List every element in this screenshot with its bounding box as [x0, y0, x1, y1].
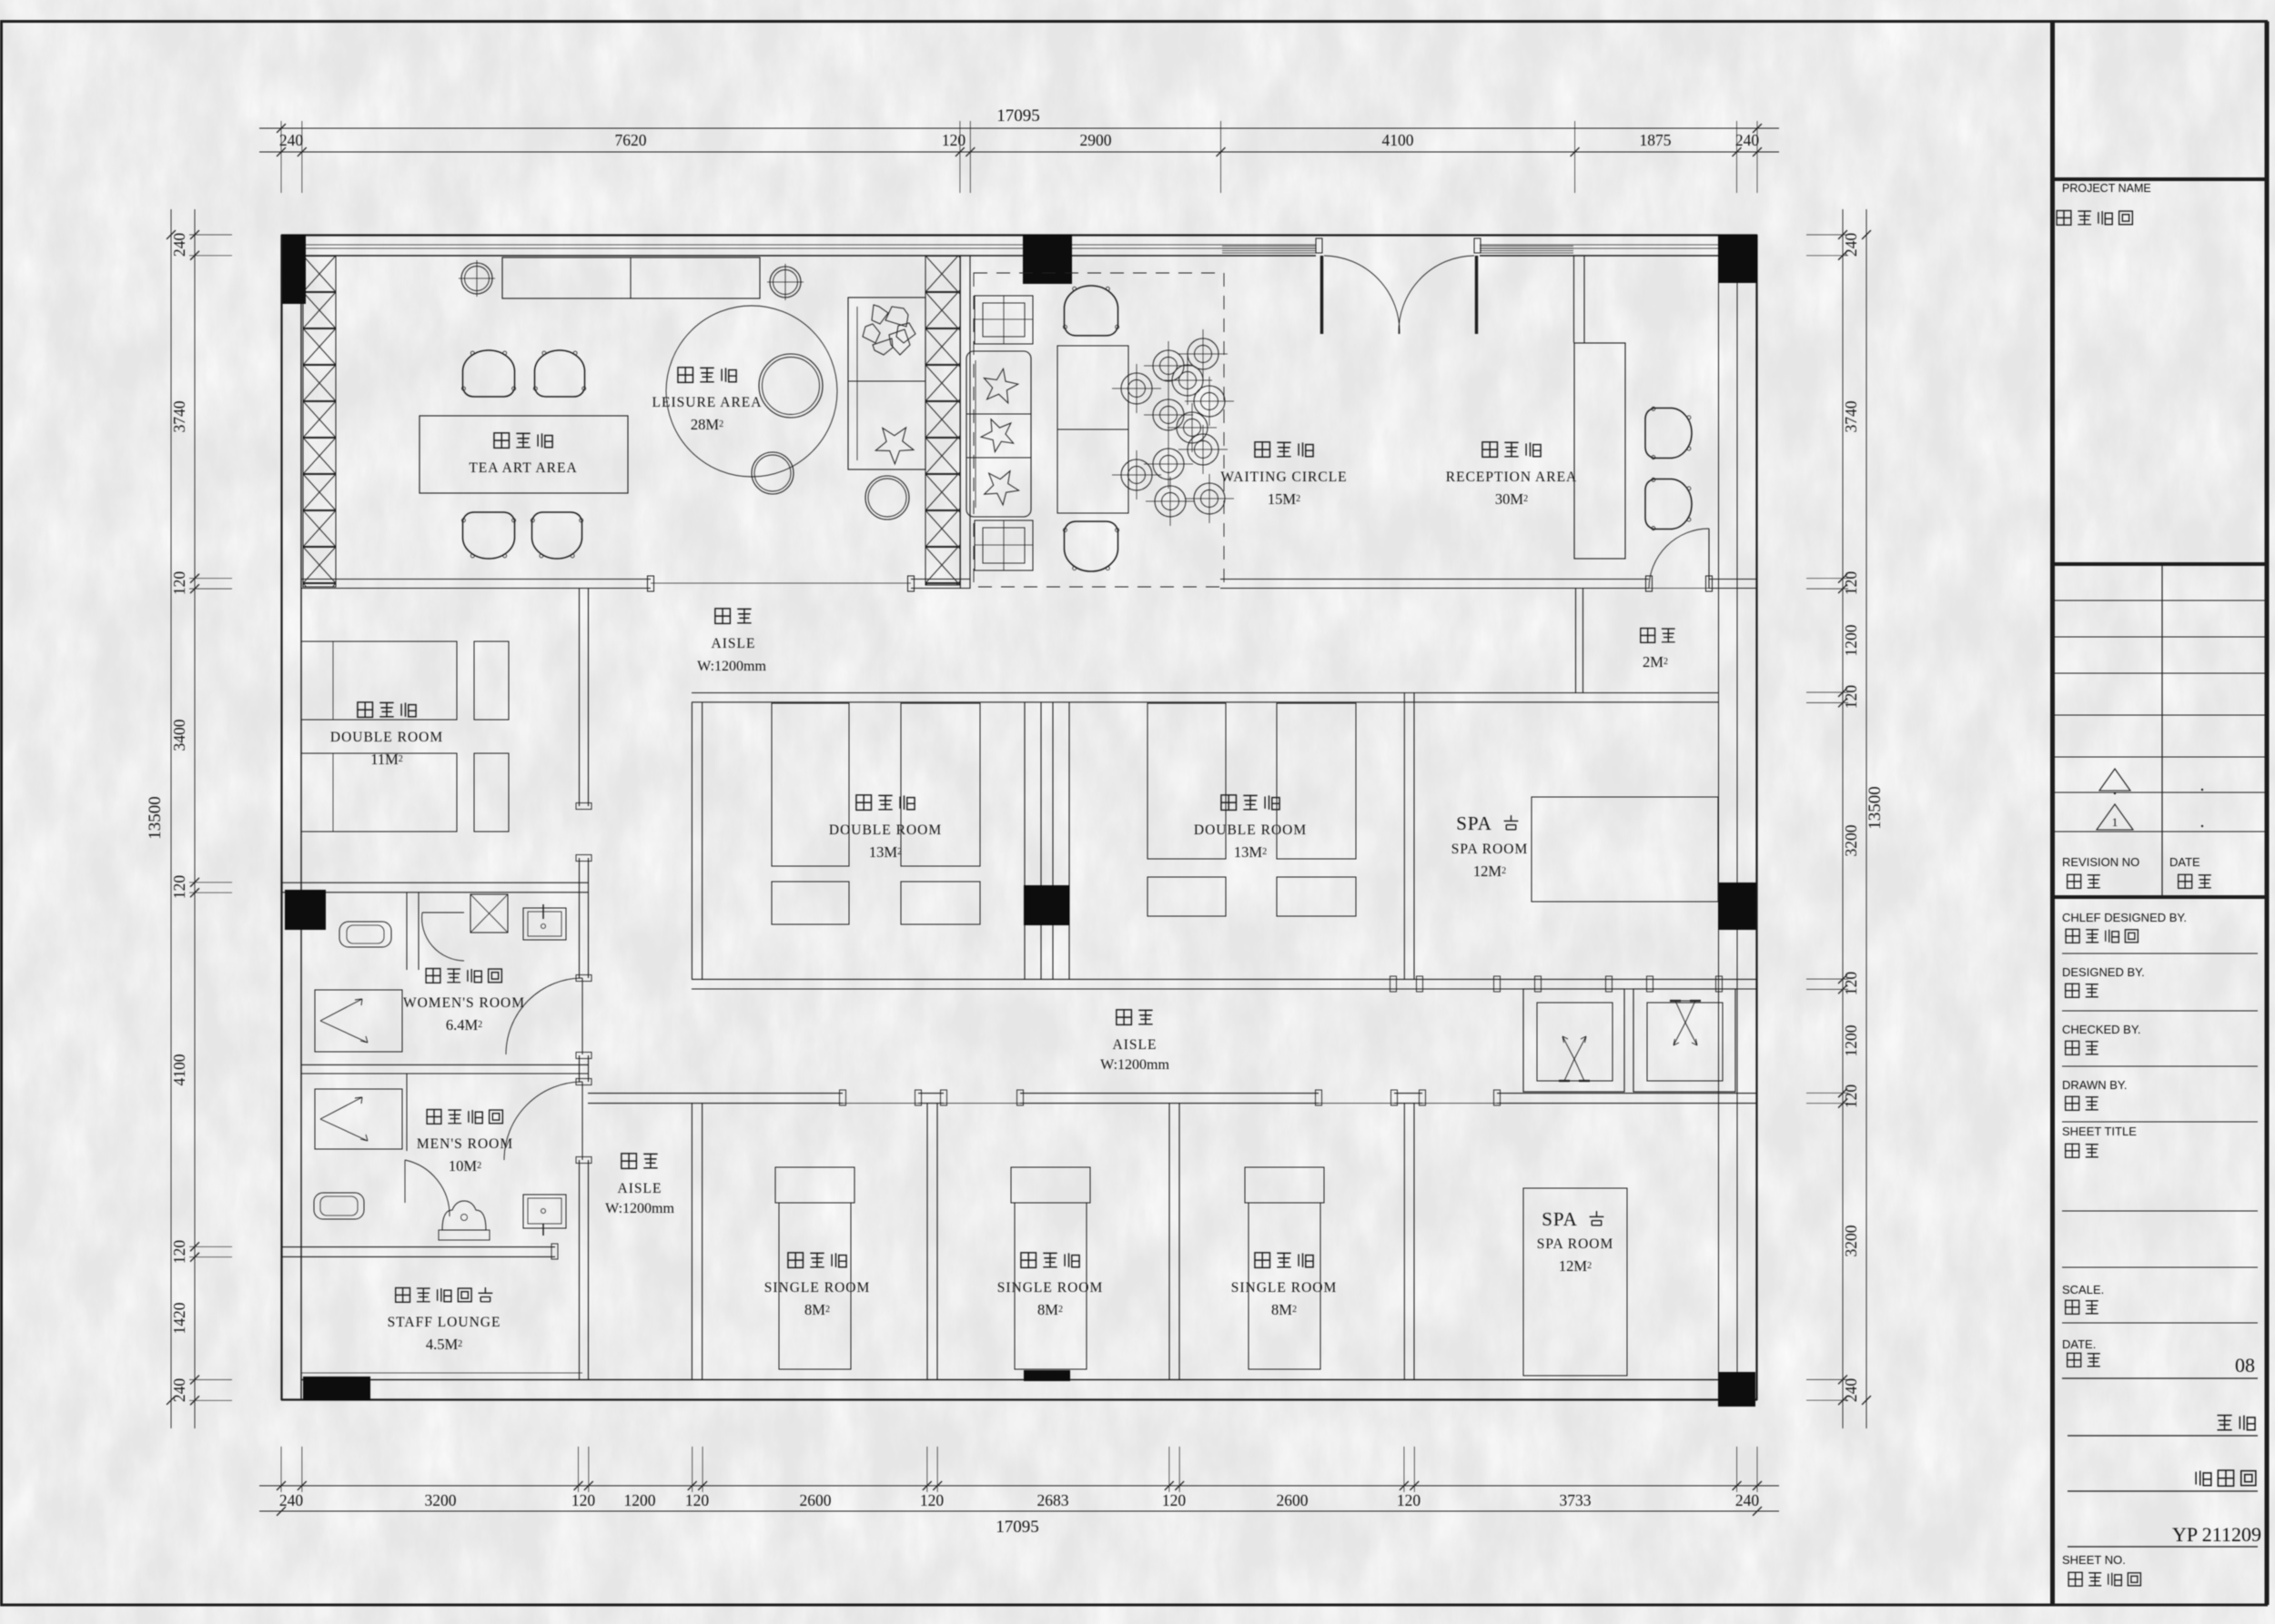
svg-text:240: 240	[170, 233, 188, 257]
title row line	[2062, 1210, 2258, 1212]
WC partition stubs	[406, 893, 408, 970]
svg-text:CHLEF DESIGNED BY.: CHLEF DESIGNED BY.	[2062, 911, 2187, 924]
tea chair SE	[531, 512, 582, 559]
svg-text:120: 120	[685, 1491, 710, 1509]
title hanzi 日期	[2179, 874, 2192, 888]
svg-text:12M2: 12M2	[1559, 1257, 1592, 1275]
bench C1	[1148, 877, 1226, 916]
label aisle 3 过道	[1117, 1010, 1132, 1025]
page frame border	[0, 20, 2268, 23]
leisure round rug	[666, 306, 837, 477]
interior wall H4 middle block south y1076-1087	[692, 978, 1757, 980]
svg-text:120: 120	[1842, 972, 1860, 996]
dimension chain top: segments	[259, 151, 1779, 153]
dimension chain bottom: segments	[259, 1485, 1779, 1487]
svg-text:DATE: DATE	[2169, 855, 2200, 869]
svg-text:AISLE: AISLE	[618, 1181, 662, 1196]
bed B1 13M2 west	[772, 703, 849, 866]
tea area cabinet	[502, 257, 760, 298]
svg-text:13M2: 13M2	[869, 843, 902, 861]
tea chair NE	[533, 350, 585, 397]
svg-text:120: 120	[1162, 1491, 1187, 1509]
spa room bottom bed	[1523, 1188, 1627, 1376]
label single room 1 单人间	[788, 1253, 804, 1268]
extension lines left	[189, 234, 232, 236]
svg-text:120: 120	[920, 1491, 945, 1509]
svg-text:17095: 17095	[996, 1518, 1039, 1537]
svg-text:TEA ART AREA: TEA ART AREA	[469, 460, 577, 476]
title hanzi 装饰	[2218, 1416, 2232, 1430]
label single room 3 单人间	[1255, 1253, 1270, 1268]
leisure side table round	[865, 476, 909, 519]
svg-text:AISLE: AISLE	[1113, 1037, 1158, 1053]
svg-text:RECEPTION AREA: RECEPTION AREA	[1446, 469, 1577, 485]
single room 2 headboard	[1011, 1167, 1090, 1203]
svg-text:2600: 2600	[1277, 1491, 1309, 1509]
leisure round table	[759, 354, 823, 418]
svg-text:DESIGNED BY.: DESIGNED BY.	[2062, 965, 2145, 979]
label staff lounge 员工休息室	[396, 1288, 410, 1303]
svg-text:28M2: 28M2	[691, 416, 723, 433]
title hanzi 修改	[2068, 874, 2081, 888]
bed C1 13M2 east	[1148, 703, 1226, 859]
svg-text:REVISION NO: REVISION NO	[2062, 855, 2139, 869]
svg-text:DRAWN BY.: DRAWN BY.	[2062, 1078, 2128, 1092]
svg-text:3740: 3740	[170, 400, 188, 432]
label single room 2 单人间	[1021, 1253, 1036, 1268]
interior wall H6 single rooms north y1201-1213	[588, 1093, 843, 1094]
column left-middle	[285, 890, 326, 930]
bed C2 13M2 east	[1277, 703, 1356, 859]
svg-text:240: 240	[1735, 131, 1760, 149]
women room door to aisle arc	[581, 978, 583, 1054]
svg-text:10M2: 10M2	[449, 1157, 481, 1175]
title row line	[2062, 1266, 2258, 1268]
title hanzi 比例	[2066, 1300, 2079, 1314]
entrance threshold hatch left	[1222, 246, 1316, 247]
svg-text:2683: 2683	[1037, 1491, 1069, 1509]
svg-text:SPA ROOM: SPA ROOM	[1537, 1236, 1614, 1252]
label men's room 男卫生间	[427, 1110, 441, 1125]
men room inner door arc	[404, 1160, 406, 1203]
svg-text:SHEET NO.: SHEET NO.	[2062, 1553, 2126, 1567]
plant on leisure sofa	[863, 305, 915, 355]
svg-text:11M2: 11M2	[370, 751, 403, 768]
men room door to aisle arc	[581, 1082, 583, 1160]
shower stall 1	[1523, 989, 1624, 1092]
interior wall H3 y970-981 (south of double room 11M2)	[281, 882, 589, 883]
svg-text:SHEET TITLE: SHEET TITLE	[2062, 1125, 2137, 1138]
svg-text:240: 240	[279, 1491, 304, 1509]
svg-text:08: 08	[2235, 1354, 2255, 1377]
svg-text:1200: 1200	[624, 1491, 656, 1509]
single room 1 bed	[779, 1203, 851, 1369]
svg-text:2900: 2900	[1080, 131, 1112, 149]
interior wall H7 staff lounge north y1370-1382	[281, 1246, 555, 1248]
interior wall V5 x1018-1030	[926, 1104, 928, 1379]
tea chair NW	[461, 350, 515, 397]
dimension chain left: overall 13500	[170, 209, 172, 1428]
svg-text:3200: 3200	[1842, 824, 1860, 856]
svg-text:4100: 4100	[170, 1054, 188, 1085]
svg-text:13M2: 13M2	[1234, 843, 1267, 861]
vase circle 1	[461, 263, 492, 294]
title block: signature rows divider	[2053, 895, 2268, 899]
interior wall H1 aisle north y636-647	[301, 579, 651, 580]
extension lines bottom	[280, 1447, 282, 1492]
waiting armchair N	[1063, 286, 1118, 336]
svg-text:WAITING CIRCLE: WAITING CIRCLE	[1220, 469, 1347, 485]
svg-text:120: 120	[571, 1491, 596, 1509]
svg-text:DOUBLE ROOM: DOUBLE ROOM	[1194, 822, 1307, 838]
label double room 13M2 west	[856, 795, 872, 811]
svg-text:PROJECT NAME: PROJECT NAME	[2062, 182, 2151, 195]
waiting circle stools cluster	[1121, 373, 1152, 404]
waiting sofa	[966, 351, 1031, 517]
interior wall V7 shoe room west x1731-1739	[1575, 589, 1577, 692]
interior wall V6 x1284-1296	[1168, 1104, 1170, 1379]
svg-text:17095: 17095	[996, 106, 1040, 126]
vase circle 2	[770, 267, 801, 298]
dimension chain top: overall 17095	[259, 127, 1779, 129]
svg-text:120: 120	[170, 571, 188, 596]
dimension chain bottom: overall 17095	[259, 1510, 1779, 1512]
hatched partition band leisure (X pattern)	[925, 256, 960, 585]
label women's room 女卫生间	[426, 969, 440, 983]
women room door small arc	[422, 912, 464, 913]
waiting end table N	[975, 296, 1033, 344]
hatched wall band left (X pattern)	[303, 256, 336, 587]
exterior wall right	[1755, 235, 1757, 1400]
pillow on waiting sofa 3	[978, 462, 1025, 508]
svg-text:13500: 13500	[1865, 786, 1885, 830]
men sink	[523, 1195, 566, 1228]
single room 3 bed	[1249, 1203, 1320, 1369]
spa room platform	[1532, 797, 1718, 902]
column bottom-middle	[1024, 1370, 1070, 1381]
title block: project name section divider	[2053, 177, 2268, 181]
tea chair SW	[461, 512, 515, 559]
entrance threshold hatch right	[1480, 246, 1573, 247]
svg-text:CHECKED BY.: CHECKED BY.	[2062, 1023, 2140, 1036]
svg-text:AISLE: AISLE	[712, 636, 756, 651]
svg-text:3200: 3200	[425, 1491, 457, 1509]
svg-text:1: 1	[2112, 815, 2118, 829]
dimension chain right: segments	[1842, 209, 1844, 1428]
column top-right	[1718, 235, 1757, 283]
svg-text:W:1200mm: W:1200mm	[1100, 1057, 1169, 1073]
bed A1 double room 11M2	[301, 641, 457, 720]
single room 2 bed	[1015, 1203, 1087, 1369]
title hanzi 图纸编号	[2068, 1572, 2082, 1586]
svg-text:120: 120	[170, 875, 188, 900]
bench C2	[1277, 877, 1356, 916]
svg-text:240: 240	[1842, 1378, 1860, 1403]
men massage table with spray arrows	[315, 1089, 402, 1149]
svg-text:30M2: 30M2	[1495, 490, 1528, 508]
reception chair N	[1645, 407, 1692, 459]
svg-text:SPA: SPA	[1456, 812, 1492, 834]
bed B2 13M2 west	[901, 703, 980, 866]
svg-text:DOUBLE ROOM: DOUBLE ROOM	[330, 730, 443, 745]
svg-text:13500: 13500	[146, 796, 165, 840]
interior wall H5 WC divider y1170-1180	[301, 1064, 589, 1065]
svg-text:2600: 2600	[800, 1491, 832, 1509]
svg-text:240: 240	[1842, 233, 1860, 257]
interior wall V11 leisure partition x1055-1066	[959, 256, 961, 589]
women sink	[523, 908, 566, 940]
tea table	[420, 416, 628, 493]
interior wall V2 x760-772	[691, 702, 693, 979]
waiting table	[1057, 346, 1128, 513]
bench B1	[772, 882, 849, 924]
jamb mark on H7	[551, 1244, 558, 1259]
pillow on waiting sofa 2	[976, 412, 1019, 454]
men urinal	[442, 1201, 486, 1230]
interior wall V3 double walls between 13M2 rooms	[1024, 702, 1026, 979]
svg-text:LEISURE AREA: LEISURE AREA	[652, 395, 763, 410]
jamb marks on V1	[576, 803, 591, 810]
svg-text:W:1200mm: W:1200mm	[697, 659, 766, 674]
svg-text:4.5M2: 4.5M2	[426, 1336, 462, 1353]
leisure stool	[752, 452, 794, 494]
label shoe room 鞋屋 2M2	[1641, 629, 1655, 643]
exterior wall top	[281, 234, 1757, 236]
dashed ceiling rect waiting area	[974, 273, 1224, 587]
column top-middle	[1023, 235, 1072, 284]
column top-left	[282, 235, 306, 304]
svg-text:120: 120	[1842, 685, 1860, 710]
svg-text:3740: 3740	[1842, 400, 1860, 432]
svg-text:MEN'S ROOM: MEN'S ROOM	[417, 1136, 513, 1152]
bed A2 double room 11M2	[301, 753, 457, 832]
title block hanzi 工程名称	[2057, 211, 2071, 226]
svg-text:12M2: 12M2	[1473, 862, 1506, 880]
svg-text:W:1200mm: W:1200mm	[605, 1201, 674, 1216]
revision triangle symbol 2	[2097, 804, 2133, 830]
label reception area 接待区	[1482, 442, 1498, 458]
dimension chain left: segments	[194, 209, 196, 1428]
svg-text:240: 240	[170, 1378, 188, 1403]
title block: revision table	[2053, 562, 2268, 566]
svg-text:1200: 1200	[1842, 1024, 1860, 1056]
label waiting circle 等待区	[1255, 442, 1270, 458]
column right-middle	[1718, 883, 1756, 930]
svg-text:SINGLE ROOM: SINGLE ROOM	[997, 1280, 1104, 1296]
svg-text:240: 240	[1735, 1491, 1760, 1509]
label aisle 2 过道	[622, 1154, 637, 1169]
women bathtub	[339, 922, 391, 947]
extension lines right	[1806, 234, 1848, 236]
svg-text:3733: 3733	[1560, 1491, 1592, 1509]
revision triangle symbol 1	[2099, 769, 2130, 791]
svg-text:SPA ROOM: SPA ROOM	[1451, 842, 1529, 857]
svg-text:120: 120	[1842, 1084, 1860, 1109]
dimension chain right: overall 13500	[1865, 209, 1867, 1428]
svg-text:4100: 4100	[1382, 131, 1414, 149]
svg-text:DATE.: DATE.	[2062, 1337, 2096, 1351]
pillow on waiting sofa 1	[980, 366, 1020, 404]
title block left border	[2050, 22, 2055, 1606]
pillow on leisure sofa	[870, 417, 922, 469]
leisure sofa west of partition	[848, 298, 925, 469]
svg-text:1200: 1200	[1842, 624, 1860, 656]
svg-text:STAFF LOUNGE: STAFF LOUNGE	[388, 1315, 501, 1330]
interior wall V4 x1543-1554	[1403, 692, 1405, 979]
title hanzi 日期 smudged	[2068, 1353, 2081, 1367]
svg-text:15M2: 15M2	[1268, 490, 1300, 508]
column bottom-right	[1718, 1372, 1755, 1407]
svg-text:1420: 1420	[170, 1302, 188, 1334]
interior wall V1 x636-647	[579, 589, 581, 806]
svg-text:120: 120	[1397, 1491, 1421, 1509]
label double room 13M2 east	[1221, 795, 1237, 811]
svg-text:120: 120	[942, 131, 966, 149]
waiting armchair S	[1063, 521, 1118, 571]
svg-text:6.4M2: 6.4M2	[446, 1016, 482, 1034]
single room 1 headboard	[775, 1167, 854, 1203]
svg-text:3200: 3200	[1842, 1225, 1860, 1256]
entrance double door	[1316, 238, 1322, 253]
women shower box	[470, 894, 508, 933]
label leisure area 休闲区	[678, 368, 693, 383]
svg-text:3400: 3400	[170, 719, 188, 751]
label double room 11M2 双人间	[358, 702, 373, 718]
single room 3 headboard	[1245, 1167, 1324, 1203]
extension lines top	[280, 121, 282, 193]
svg-text:1875: 1875	[1640, 131, 1672, 149]
shower stall 2	[1633, 989, 1735, 1092]
svg-text:SINGLE ROOM: SINGLE ROOM	[1231, 1280, 1338, 1296]
title hanzi 施工图	[2196, 1471, 2211, 1486]
label aisle 1 过道	[715, 609, 731, 624]
svg-text:WOMEN'S ROOM: WOMEN'S ROOM	[403, 995, 525, 1011]
women massage table with spray arrows	[315, 990, 402, 1052]
jamb marks on H6	[840, 1090, 846, 1105]
door jamb marks on H1	[648, 576, 654, 591]
bench B2	[901, 882, 980, 924]
interior wall H2 middle block north y761-772	[692, 692, 1718, 694]
exterior wall left	[280, 235, 282, 1400]
bench A2	[474, 753, 509, 832]
svg-text:120: 120	[170, 1240, 188, 1265]
label tea art area 茶艺区	[494, 433, 510, 449]
svg-text:120: 120	[1842, 571, 1860, 596]
svg-text:SINGLE ROOM: SINGLE ROOM	[764, 1280, 871, 1296]
shoe room door arc	[1708, 529, 1710, 589]
column bottom-left	[303, 1377, 370, 1400]
interior wall V8 stub right of entrance	[1573, 256, 1575, 343]
column center	[1024, 885, 1069, 925]
svg-text:7620: 7620	[615, 131, 647, 149]
svg-text:SCALE.: SCALE.	[2062, 1283, 2104, 1296]
exterior wall bottom	[281, 1398, 1757, 1400]
reception desk	[1574, 343, 1625, 559]
svg-text:DOUBLE ROOM: DOUBLE ROOM	[829, 822, 942, 838]
bench A1	[474, 641, 509, 720]
waiting end table S	[975, 520, 1033, 570]
reception chair S	[1645, 478, 1692, 530]
jamb marks on H4	[1390, 976, 1397, 992]
men bathtub	[314, 1193, 364, 1219]
title hanzi 图名	[2066, 1144, 2079, 1157]
svg-text:YP 211209: YP 211209	[2172, 1523, 2261, 1546]
svg-text:SPA: SPA	[1542, 1208, 1578, 1230]
svg-text:240: 240	[279, 131, 304, 149]
